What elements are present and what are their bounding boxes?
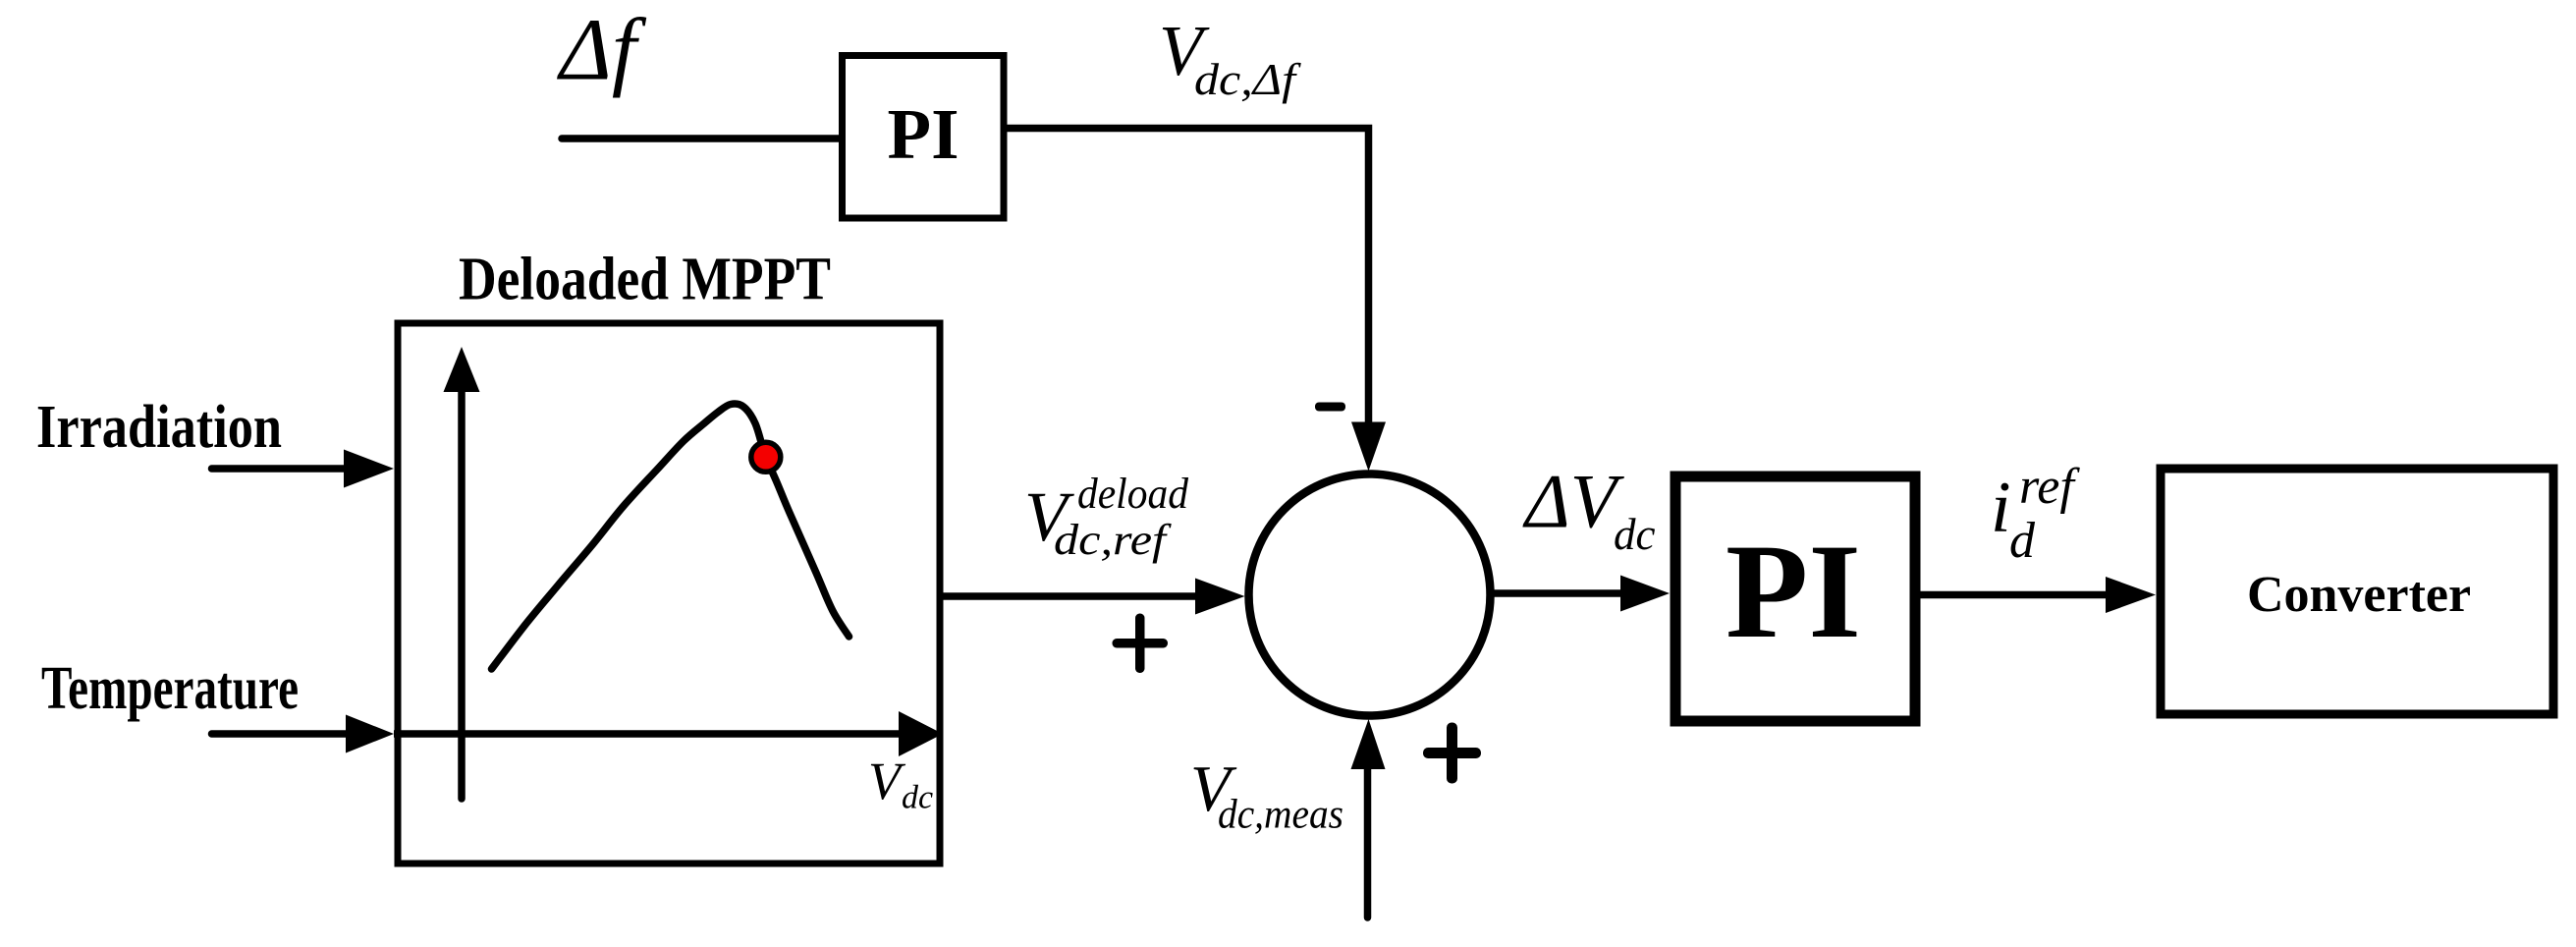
wire: MPPT output V_dc,ref to summing junction [940, 592, 1200, 600]
wire: V_dc,meas bottom input shaft [1364, 769, 1372, 918]
wire: summing junction S1 to PI U2 [1492, 589, 1625, 597]
plus sign at summing junction S1 left input [1113, 639, 1169, 648]
svg-text:PI: PI [1726, 516, 1861, 666]
arrowhead: i_d^ref into Converter [2106, 577, 2156, 613]
svg-text:PI: PI [888, 94, 959, 174]
PI U2 box [1675, 476, 1915, 721]
svg-text:Temperature: Temperature [41, 655, 299, 722]
svg-text:Deloaded MPPT: Deloaded MPPT [459, 247, 831, 313]
arrowhead: x-axis [899, 711, 943, 756]
svg-text:dc,meas: dc,meas [1218, 793, 1343, 838]
y-axis of P-V graph [458, 391, 466, 799]
arrowhead: V_dc,ref into summing junction S1 [1195, 579, 1245, 615]
svg-text:Irradiation: Irradiation [36, 394, 282, 461]
Deloaded MPPT block box [398, 323, 940, 863]
svg-text:ΔV: ΔV [1522, 459, 1625, 544]
svg-text:i: i [1991, 468, 2011, 548]
wire: Irradiation arrow shaft [212, 465, 350, 473]
arrowhead: V_dc,meas into summing junction S1 (up) [1351, 719, 1386, 769]
operating point marker (red dot) on curve [751, 442, 781, 472]
svg-text:Δf: Δf [557, 2, 647, 99]
PI U1 box [843, 56, 1005, 219]
wire: PI U1 output to summing junction (corner) [1004, 129, 1369, 425]
wire: PI U2 output to Converter [1915, 591, 2111, 599]
svg-text:Converter: Converter [2247, 567, 2471, 623]
svg-text:d: d [2009, 513, 2036, 569]
arrowhead: Temperature into MPPT box [346, 715, 394, 753]
arrowhead: ΔV_dc into PI U2 [1620, 576, 1670, 612]
svg-text:dc: dc [1614, 510, 1656, 559]
P-V characteristic curve [492, 404, 850, 669]
wire: Temperature arrow shaft [212, 730, 350, 738]
x-axis of P-V graph [394, 730, 904, 738]
svg-text:ref: ref [2019, 459, 2080, 515]
arrowhead: V_dc,Δf into summing junction S1 (down) [1351, 422, 1386, 472]
minus sign at summing junction S1 top input [1315, 403, 1345, 412]
svg-text:dc: dc [902, 780, 933, 816]
summing junction S1 [1249, 474, 1491, 716]
Converter box [2161, 469, 2553, 714]
svg-text:dc,ref: dc,ref [1054, 516, 1173, 564]
arrowhead: y-axis [444, 347, 480, 392]
svg-text:dc,Δf: dc,Δf [1194, 54, 1302, 104]
wire: Δf input to PI U1 [562, 135, 843, 142]
plus sign at summing junction S1 bottom input [1423, 748, 1481, 758]
svg-text:deload: deload [1077, 470, 1189, 518]
arrowhead: Irradiation into MPPT box [344, 450, 394, 488]
